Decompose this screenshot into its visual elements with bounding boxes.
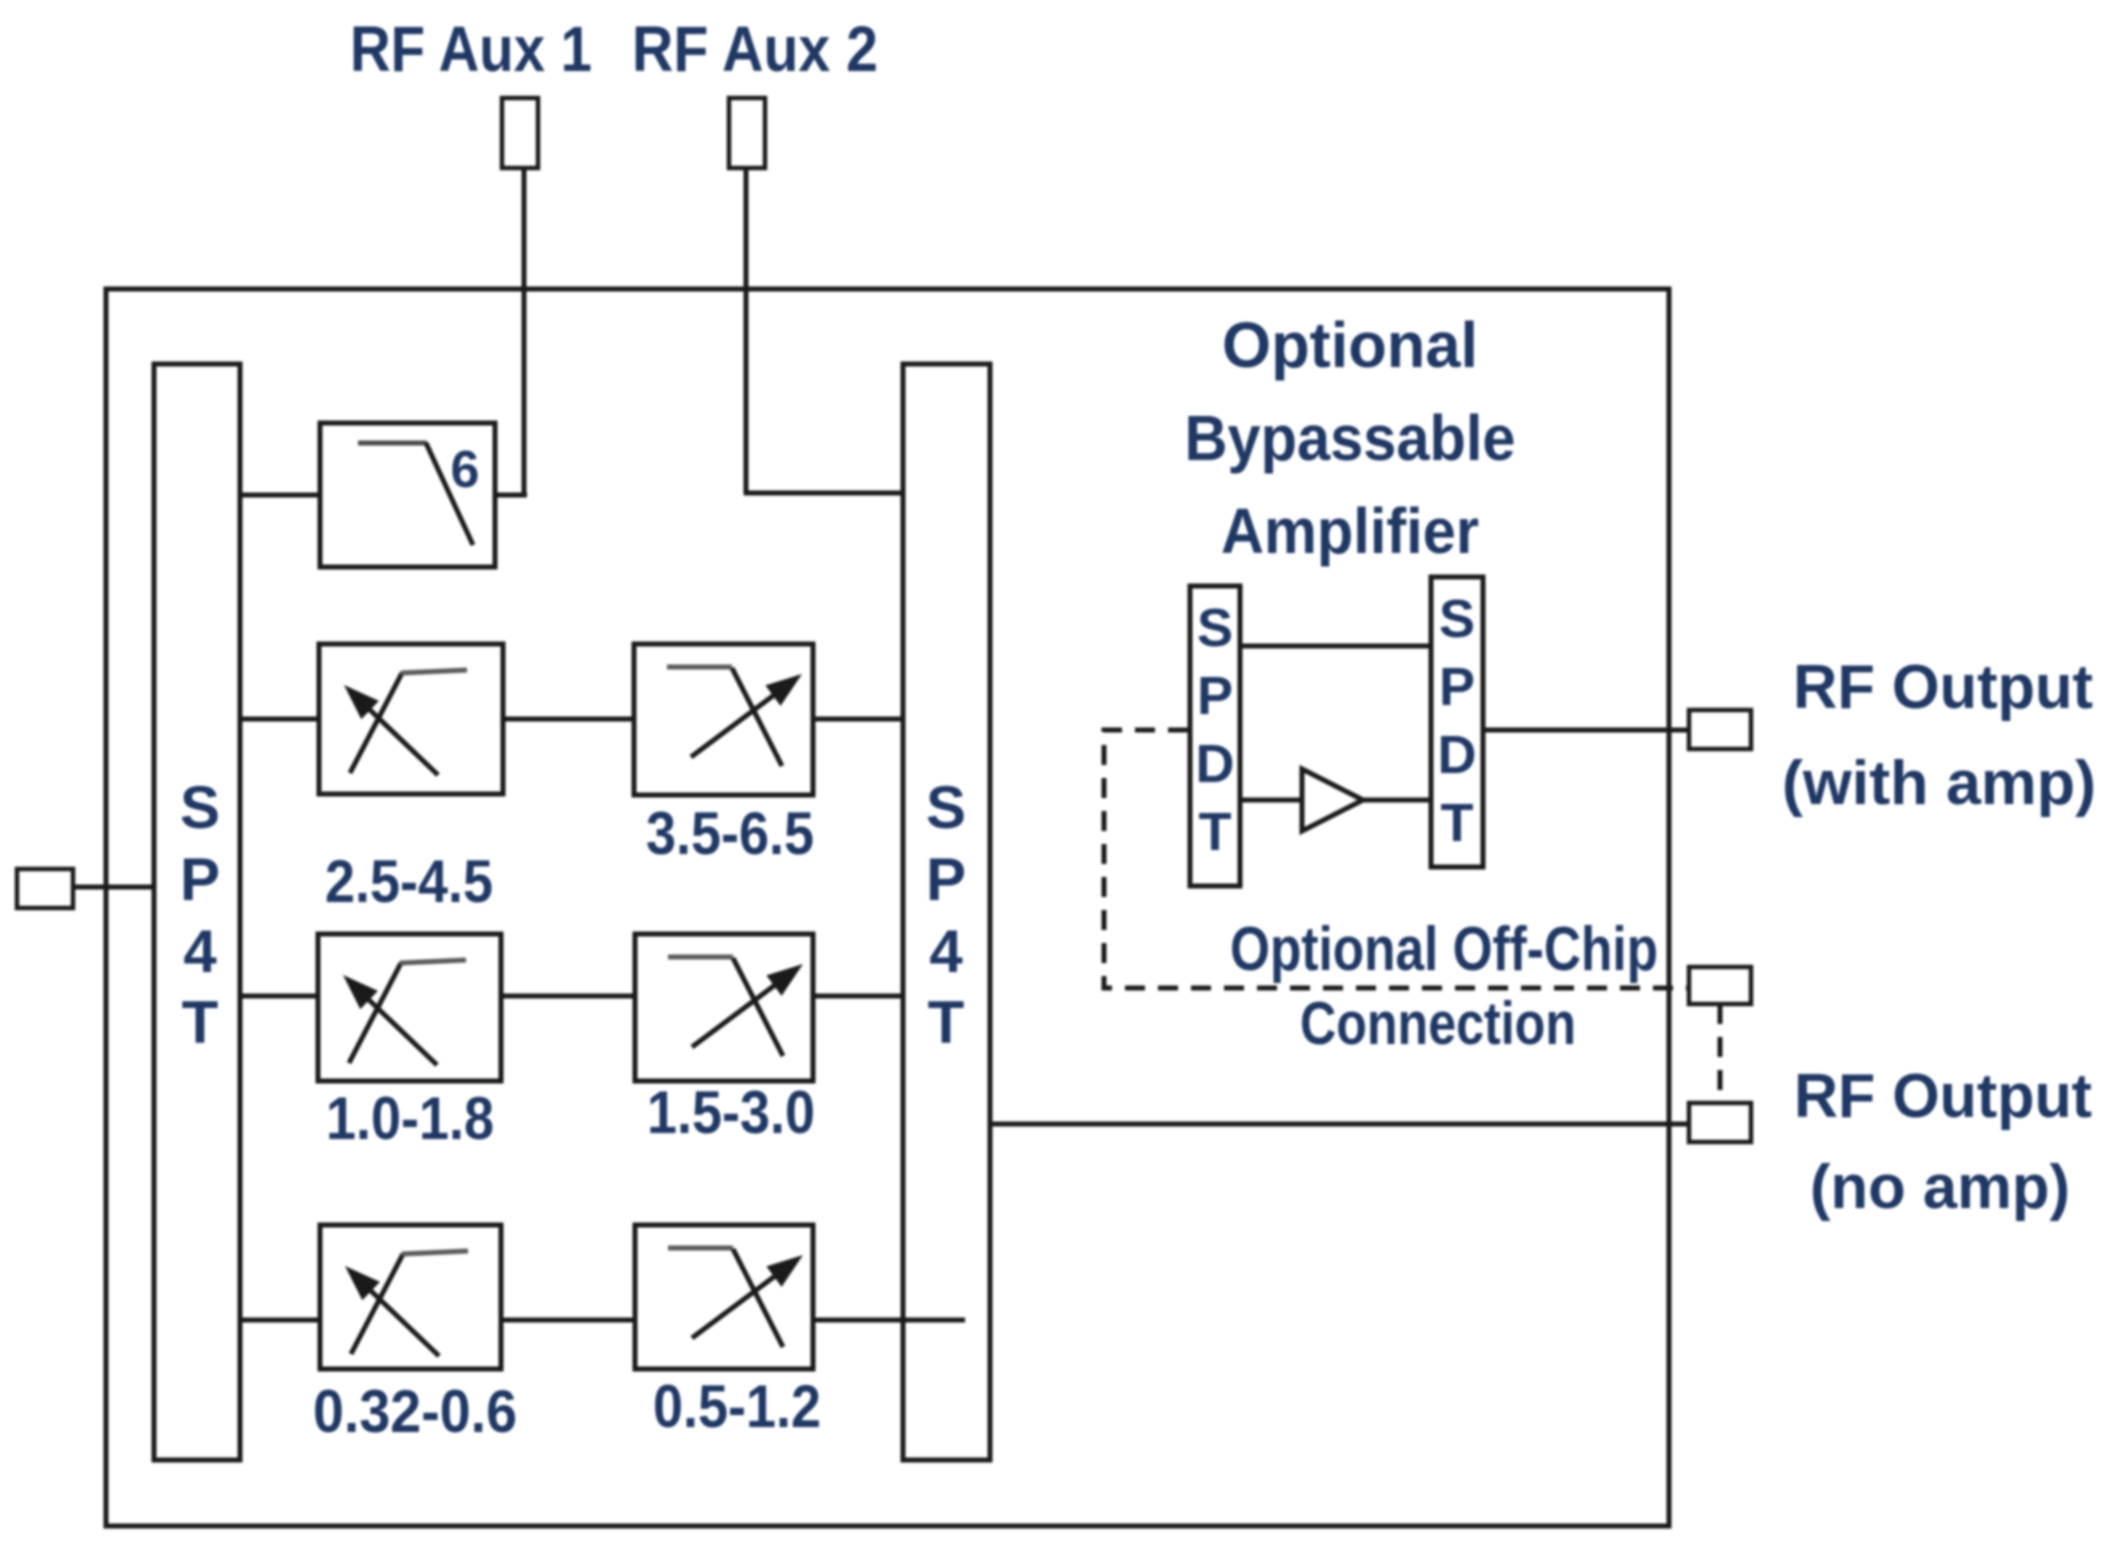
svg-text:6: 6: [451, 441, 480, 499]
svg-text:P: P: [926, 846, 966, 913]
svg-text:T: T: [182, 989, 219, 1056]
svg-text:T: T: [1441, 793, 1474, 853]
svg-text:Optional: Optional: [1222, 309, 1478, 381]
svg-text:T: T: [928, 989, 965, 1056]
svg-text:1.0-1.8: 1.0-1.8: [326, 1085, 494, 1152]
svg-text:P: P: [180, 846, 220, 913]
svg-text:Optional Off-Chip: Optional Off-Chip: [1230, 915, 1658, 984]
svg-text:(no amp): (no amp): [1810, 1153, 2070, 1222]
svg-text:1.5-3.0: 1.5-3.0: [647, 1079, 815, 1146]
svg-text:RF Aux 2: RF Aux 2: [632, 13, 878, 85]
svg-text:4: 4: [183, 918, 217, 985]
svg-text:RF Output: RF Output: [1793, 653, 2093, 722]
svg-text:S: S: [1439, 589, 1475, 649]
svg-text:S: S: [180, 774, 220, 841]
svg-text:3.5-6.5: 3.5-6.5: [646, 800, 814, 867]
svg-text:T: T: [1199, 802, 1232, 862]
svg-text:P: P: [1197, 666, 1233, 726]
svg-text:Amplifier: Amplifier: [1221, 495, 1479, 567]
svg-text:RF Output: RF Output: [1794, 1062, 2092, 1131]
svg-text:Connection: Connection: [1300, 990, 1576, 1057]
svg-text:4: 4: [929, 918, 963, 985]
svg-text:D: D: [1196, 734, 1235, 794]
svg-text:2.5-4.5: 2.5-4.5: [325, 848, 493, 915]
svg-text:0.32-0.6: 0.32-0.6: [313, 1378, 517, 1445]
svg-text:S: S: [926, 774, 966, 841]
svg-text:0.5-1.2: 0.5-1.2: [653, 1373, 821, 1440]
svg-text:RF Aux 1: RF Aux 1: [350, 13, 592, 85]
svg-text:Bypassable: Bypassable: [1185, 402, 1516, 474]
svg-text:D: D: [1438, 725, 1477, 785]
svg-text:S: S: [1197, 598, 1233, 658]
svg-text:(with amp): (with amp): [1782, 749, 2096, 818]
svg-text:P: P: [1439, 657, 1475, 717]
